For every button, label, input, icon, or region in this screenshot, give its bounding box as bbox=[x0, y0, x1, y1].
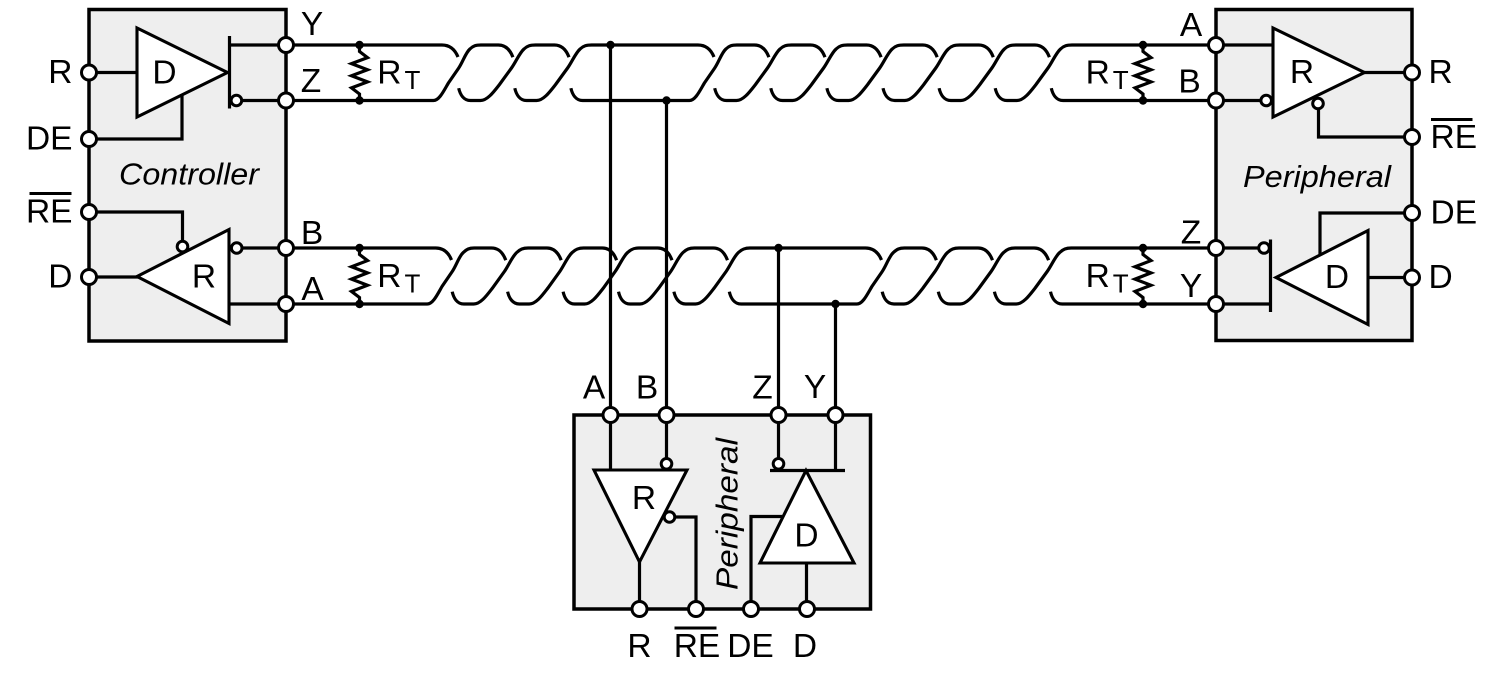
svg-text:R: R bbox=[632, 480, 656, 517]
svg-text:B: B bbox=[636, 370, 658, 407]
svg-text:Y: Y bbox=[804, 369, 826, 406]
svg-text:B: B bbox=[301, 215, 323, 252]
svg-text:Z: Z bbox=[752, 370, 772, 407]
svg-text:D: D bbox=[794, 518, 818, 555]
svg-text:R: R bbox=[48, 54, 72, 91]
svg-text:Peripheral: Peripheral bbox=[1243, 159, 1392, 194]
svg-text:Z: Z bbox=[1181, 215, 1201, 252]
svg-text:A: A bbox=[583, 370, 606, 407]
svg-text:RE: RE bbox=[1431, 119, 1478, 156]
svg-text:DE: DE bbox=[26, 121, 73, 158]
svg-text:RE: RE bbox=[26, 194, 73, 231]
svg-text:Y: Y bbox=[301, 6, 323, 43]
svg-text:A: A bbox=[301, 271, 324, 308]
svg-text:R: R bbox=[192, 259, 216, 296]
svg-text:Z: Z bbox=[301, 63, 321, 100]
svg-text:Controller: Controller bbox=[119, 157, 261, 192]
svg-text:Y: Y bbox=[1180, 268, 1202, 305]
svg-text:D: D bbox=[1325, 259, 1349, 296]
svg-text:RE: RE bbox=[674, 628, 721, 665]
svg-text:R: R bbox=[627, 628, 651, 665]
svg-text:D: D bbox=[793, 628, 817, 665]
svg-text:D: D bbox=[152, 55, 176, 92]
svg-text:Peripheral: Peripheral bbox=[710, 437, 745, 590]
svg-text:DE: DE bbox=[727, 628, 774, 665]
svg-text:A: A bbox=[1180, 7, 1203, 44]
svg-text:D: D bbox=[48, 259, 72, 296]
svg-text:D: D bbox=[1429, 259, 1453, 296]
svg-text:R: R bbox=[1429, 54, 1453, 91]
svg-text:B: B bbox=[1178, 64, 1200, 101]
svg-text:DE: DE bbox=[1431, 195, 1478, 232]
svg-text:R: R bbox=[1290, 54, 1314, 91]
